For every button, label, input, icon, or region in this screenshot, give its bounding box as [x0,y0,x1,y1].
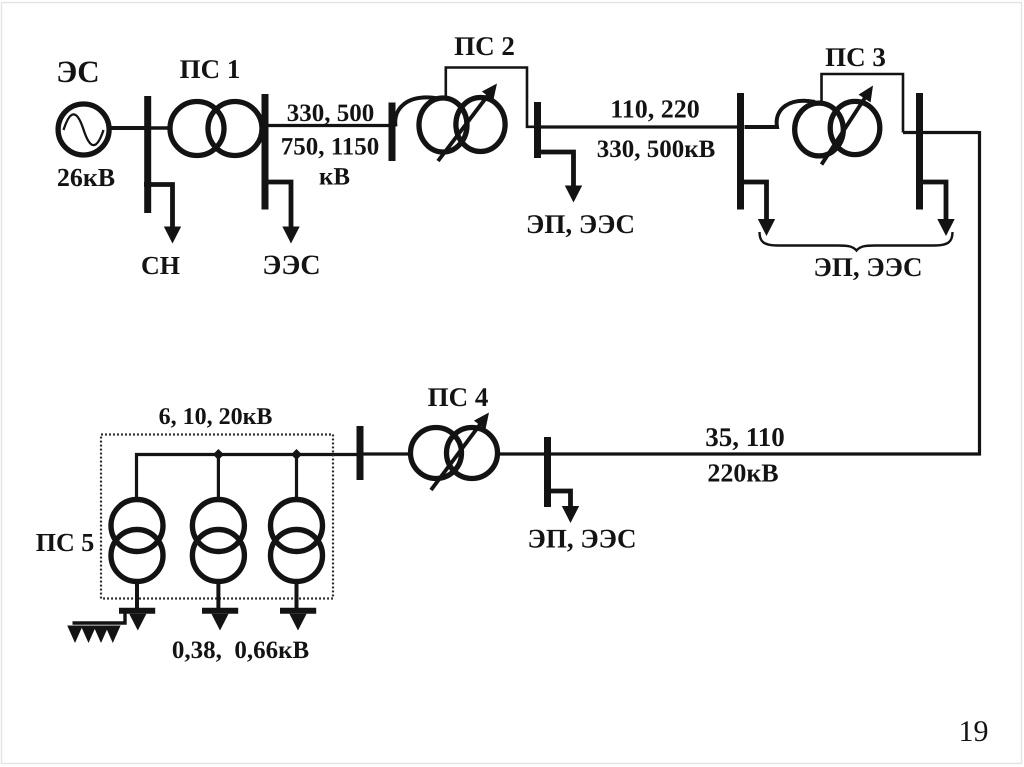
label ПС 4 [428,382,489,412]
label 330, 500 [287,100,375,127]
wire: generator to busbar A [109,126,146,130]
svg-text:35, 110: 35, 110 [705,422,785,452]
LV stub T5c [295,583,299,611]
label 330, 500кВ [597,136,716,163]
junction dot (T5c feeder) [291,449,302,460]
svg-text:ЭЭС: ЭЭС [262,250,320,281]
label ПС 2 [454,31,515,61]
label ЭП, ЭЭС (bus H load) [528,524,637,554]
label ПС 1 [180,54,241,84]
label 35, 110 [705,422,785,452]
svg-text:750, 1150: 750, 1150 [281,134,380,161]
busbar G [357,426,364,480]
label СН [141,251,180,280]
distribution feeder arrows (local network) [67,611,125,643]
label 110, 220 [610,95,700,124]
svg-text:0,38, 0,66кВ: 0,38, 0,66кВ [172,637,309,664]
transformer T4 (ПС 4, regulated) [411,413,498,491]
wire: transformer T4 to busbar G [363,452,410,455]
brace under ПС 3 loads [760,232,953,251]
transformer T2 (ПС 2, regulated autotransformer) [419,84,505,162]
LV terminal bar T5a [119,608,155,614]
LV stub T5a [135,583,139,611]
link: T3 to busbar F [822,74,904,133]
load tap ЭП, ЭЭС from busbar H [544,491,579,523]
transformer T3 (ПС 3, regulated autotransformer) [795,86,880,165]
feeder stub to T5c [295,455,298,498]
svg-text:6, 10, 20кВ: 6, 10, 20кВ [159,404,273,430]
transformer T1 (ПС 1, two-winding) [170,102,262,156]
svg-text:26кВ: 26кВ [57,163,115,192]
label 26кВ [57,163,115,192]
label ПС 5 [36,528,95,557]
enclosure ПС 5 (dashed box) [101,435,333,599]
load tap ЭП, ЭЭС from busbar D [534,152,582,203]
load tap СН from busbar A [144,185,181,244]
busbar D [534,102,541,158]
label кВ [319,164,350,191]
label ЭС [56,54,99,89]
feeder stub to T5b [217,455,220,498]
page number 19 [959,715,989,748]
svg-text:ЭП, ЭЭС: ЭП, ЭЭС [528,524,637,554]
svg-text:330, 500кВ: 330, 500кВ [597,136,716,163]
busbar C [389,103,396,162]
transformer T5a (ПС 5, two-winding) [111,500,163,582]
label 6, 10, 20кВ [159,404,273,430]
busbar A (station bus) [144,96,151,213]
busbar H [544,437,551,507]
wire: row2 line from corner to busbar H [549,452,981,455]
label ЭП, ЭЭС (bus D load) [526,209,635,239]
svg-text:ЭП, ЭЭС: ЭП, ЭЭС [814,252,923,282]
label ПС 3 [825,42,886,72]
jumper arc into transformer T3 [745,101,816,127]
wire: busbar F to long line corner [903,131,978,134]
wire: busbar G to ПС 5 distribution bus [137,455,358,498]
busbar E [737,93,744,210]
svg-text:ЭП, ЭЭС: ЭП, ЭЭС [526,209,635,239]
load tap ЭЭС from busbar B [262,182,300,244]
svg-text:ПС 1: ПС 1 [180,54,241,84]
label ЭЭС [262,250,320,281]
label ЭП, ЭЭС (ПС 3 loads) [814,252,923,282]
load arrow 0,38/0,66кВ (T5a) [129,614,146,631]
LV stub T5b [216,583,220,611]
load tap from busbar E [737,182,775,236]
svg-text:220кВ: 220кВ [707,459,778,488]
transformer T5b (ПС 5, two-winding) [192,500,244,582]
svg-text:кВ: кВ [319,164,350,191]
jumper arc into transformer T2 [395,97,437,126]
wire: transmission line busbar D to busbar E [541,125,737,128]
svg-text:ПС 5: ПС 5 [36,528,95,557]
svg-text:ПС 4: ПС 4 [428,382,489,412]
load arrow 0,38/0,66кВ (T5c) [289,614,306,631]
label 750, 1150 [281,134,380,161]
svg-text:ЭС: ЭС [56,54,99,89]
junction dot (T5b feeder) [213,449,224,460]
LV terminal bar T5c [280,608,316,614]
svg-text:ПС 2: ПС 2 [454,31,515,61]
busbar B [262,94,269,210]
svg-text:19: 19 [959,715,989,748]
transformer T5c (ПС 5, two-winding) [271,500,323,582]
label 0,38, 0,66кВ [172,637,309,664]
load arrow 0,38/0,66кВ (T5b) [211,614,228,631]
svg-text:СН: СН [141,251,180,280]
svg-text:ПС 3: ПС 3 [825,42,886,72]
wire: long line down to row 2 [978,131,981,456]
wire: transmission line busbar B to busbar C [268,124,390,127]
busbar F [916,93,923,210]
svg-text:110, 220: 110, 220 [610,95,700,124]
generator ЭС (power plant source) [58,104,109,155]
wire: busbar A to transformer T1 [151,126,171,130]
link: T2 to busbar D [446,68,535,127]
wire: busbar H to transformer T4 [499,452,544,455]
LV terminal bar T5b [202,608,238,614]
label 220кВ [707,459,778,488]
load tap from busbar F [916,182,955,236]
svg-text:330, 500: 330, 500 [287,100,375,127]
